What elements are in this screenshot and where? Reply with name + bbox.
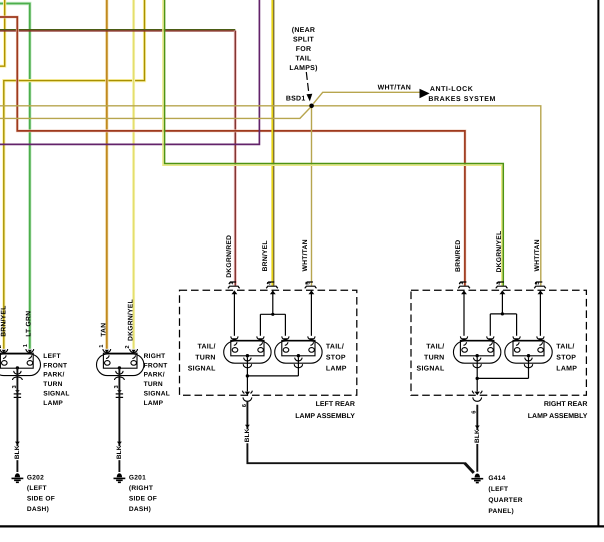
wire BRN/YEL to left rear pin4 [271, 0, 273, 286]
splice dot BSD1 [309, 104, 314, 109]
junction dot common return left box [246, 374, 249, 377]
svg-text:TAIL/STOPLAMP: TAIL/STOPLAMP [556, 343, 577, 373]
ground G414 [471, 474, 483, 483]
wire DKGRN/RED vertical to left rear pin1 [234, 31, 237, 286]
wire DKGRN/YEL to right rear pin4 [163, 0, 502, 286]
svg-text:BLK: BLK [474, 429, 481, 443]
bulb return lines to common (left box) [247, 357, 298, 391]
wire BRN/RED to right rear pin1 [0, 17, 465, 286]
bulb return lines to common (right box) [477, 357, 528, 391]
ground G202 [12, 473, 24, 482]
svg-text:TAN: TAN [100, 323, 107, 337]
wire DKGRN/RED horizontal pair [0, 29, 235, 31]
entry right rear bulbA left [460, 336, 467, 339]
interior line pin1 to tail/turn bulb [233, 291, 235, 336]
interior line pin4 branch [260, 291, 285, 336]
right front park/turn signal lamp body [97, 353, 144, 380]
junction dot pin4 branch right [501, 312, 504, 315]
bulb left rear tail/stop lamp [275, 340, 322, 367]
pin 1 left rear (DKGRN/RED) [228, 282, 240, 288]
svg-text:DKGRN/YEL: DKGRN/YEL [127, 299, 134, 341]
interior line pin4 branch (right box) [490, 291, 516, 336]
wire BLK right rear box to G414 [476, 405, 478, 472]
arrow into pin1 left rear [232, 290, 238, 294]
ground G201 [114, 473, 126, 482]
svg-text:BRN/RED: BRN/RED [455, 240, 462, 272]
wire LT GRN left front lamp pin1 [0, 4, 30, 349]
label BLK (right front) [115, 442, 123, 461]
label BLK (right rear) [473, 425, 481, 444]
arrow into pin1 right rear [461, 290, 467, 294]
entry right rear bulbB right [537, 336, 544, 339]
bulb right rear tail/stop lamp bottom junction dot [527, 354, 530, 357]
pin 4 left rear (BRN/YEL) [266, 282, 278, 288]
junction dot common return right box [476, 377, 479, 380]
arrow into pin4 right rear [500, 290, 506, 294]
svg-text:WHT/TAN: WHT/TAN [378, 83, 412, 91]
entry right rear bulbB left [513, 336, 520, 339]
left front park/turn signal lamp junction dot [16, 366, 19, 369]
arrowhead to anti-lock brakes system [420, 89, 430, 99]
interior line pin5 to tail/stop bulb (right box) [539, 291, 541, 336]
entry left rear bulbB right [308, 336, 315, 339]
wire BLK left rear box to G414 [247, 401, 465, 463]
svg-text:BRN/YEL: BRN/YEL [262, 240, 269, 271]
wire TAN right front lamp pin1 [105, 0, 108, 349]
wire PPL (violet) [0, 0, 259, 144]
wire BLK left front lamp to G202 [16, 368, 18, 472]
label BLK (left rear) [243, 425, 251, 444]
arrow from note to splice BSD1 [306, 72, 309, 93]
svg-text:TAIL/STOPLAMP: TAIL/STOPLAMP [326, 343, 347, 373]
left rear lamp assembly dashed box [180, 290, 357, 395]
wire BRN/YEL to left front lamp pin2 [4, 0, 145, 349]
interior line pin5 to tail/stop bulb [310, 291, 312, 336]
right front park/turn signal lamp exit pin marks [117, 390, 122, 393]
page border bottom [0, 525, 604, 527]
bulb right rear tail/stop lamp [505, 340, 552, 367]
bulb left rear tail/turn signal bottom junction dot [246, 354, 249, 357]
wire BRN/YEL stub top-left [0, 0, 5, 66]
svg-text:2: 2 [0, 345, 3, 348]
wire WHT/TAN main run and branches (splice BSD1) [0, 92, 541, 285]
arrow into pin5 right rear [538, 290, 544, 294]
arrow into pin4 left rear [270, 290, 276, 294]
pin 4 right rear (DKGRN/YEL) [496, 282, 508, 288]
bulb right rear tail/turn signal [453, 340, 500, 367]
svg-text:DKGRN/YEL: DKGRN/YEL [496, 231, 503, 273]
exit pin 6 right rear box [475, 392, 480, 396]
pin 5 right rear (WHT/TAN) [534, 282, 546, 288]
svg-text:2: 2 [124, 345, 131, 348]
page border right [597, 0, 599, 527]
arrow into pin5 left rear [309, 290, 315, 294]
pin 1 right rear (BRN/RED) [458, 282, 470, 288]
bulb left rear tail/stop lamp bottom junction dot [297, 354, 300, 357]
svg-text:BLK: BLK [116, 445, 123, 459]
right front park/turn signal lamp junction dot [118, 366, 121, 369]
svg-text:BRN/YEL: BRN/YEL [0, 306, 7, 337]
left front park/turn signal lamp entry cups [0, 349, 34, 352]
svg-text:WHT/TAN: WHT/TAN [534, 239, 541, 271]
right rear lamp assembly dashed box [411, 290, 586, 395]
svg-text:DKGRN/RED: DKGRN/RED [226, 235, 233, 278]
left front park/turn signal lamp exit pin marks [15, 390, 20, 393]
entry right rear bulbA right [487, 336, 494, 339]
svg-text:LT GRN: LT GRN [25, 311, 32, 337]
wire DKGRN/YEL right front lamp pin2 [132, 0, 135, 349]
bulb left rear tail/turn signal [224, 340, 271, 367]
interior line pin1 to tail/turn bulb (right box) [463, 291, 465, 336]
svg-text:BLK: BLK [14, 445, 21, 459]
bulb right rear tail/turn signal bottom junction dot [475, 354, 478, 357]
pin 5 left rear (WHT/TAN) [305, 282, 317, 288]
junction dot pin4 branch left [271, 313, 274, 316]
entry left rear bulbA right [257, 336, 264, 339]
svg-text:BSD1: BSD1 [286, 95, 306, 102]
svg-text:BLK: BLK [244, 428, 251, 442]
exit pin 6 left rear box [245, 392, 250, 396]
left front park/turn signal lamp body [0, 353, 41, 380]
entry left rear bulbA left [231, 336, 238, 339]
right front park/turn signal lamp entry cups [103, 349, 138, 352]
svg-text:WHT/TAN: WHT/TAN [302, 239, 309, 271]
entry left rear bulbB left [282, 336, 289, 339]
label BLK (left front) [13, 442, 21, 461]
wire BLK right front lamp to G201 [118, 368, 120, 472]
